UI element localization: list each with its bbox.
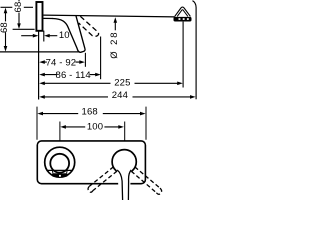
text 86 - 114 — [56, 70, 91, 81]
handle lever raised position (side view, dashed) — [79, 16, 99, 36]
side ticks — [51, 171, 54, 174]
handle tip extension line — [84, 53, 86, 67]
handle stem — [118, 171, 131, 200]
aerator slots — [179, 18, 181, 20]
spout tip cone inner — [177, 10, 188, 17]
dimension 74-92 — [39, 60, 45, 64]
svg-text:244: 244 — [112, 90, 128, 101]
dimension 10 — [21, 35, 33, 37]
dimension texts — [0, 2, 135, 133]
escutcheon plate (front view) — [37, 141, 145, 184]
68-top extension line at plate bottom level — [13, 28, 35, 30]
aerator block — [174, 17, 192, 22]
dimension 244 — [39, 95, 45, 99]
dashed-handle tip extension line — [100, 37, 102, 80]
spout bottom line — [43, 17, 53, 19]
svg-text:68: 68 — [0, 22, 10, 33]
svg-text:74 - 92: 74 - 92 — [46, 57, 77, 68]
front view: extension lines — [36, 107, 38, 140]
dashed lever right position (front view) — [131, 167, 161, 194]
spout outlet inner circle — [50, 154, 69, 173]
dimension 100 — [60, 125, 66, 129]
svg-text:100: 100 — [87, 122, 103, 133]
handle lever (side view, solid) — [53, 16, 86, 52]
spout top line — [43, 15, 174, 17]
svg-text:225: 225 — [114, 77, 130, 88]
dimension diameter 28 arrow — [114, 17, 118, 23]
svg-text:68: 68 — [13, 2, 24, 13]
dimension 225 — [39, 82, 45, 86]
spout tip curve + 244 extension line — [193, 1, 197, 100]
dashed lever left position (front view) — [88, 167, 117, 192]
handle knob (front view) — [112, 150, 136, 174]
dimension 86-114 — [39, 73, 45, 77]
plate front extension line — [43, 31, 45, 42]
dimension 68 left: vertical line — [4, 8, 8, 14]
68-left top extension line — [1, 6, 13, 8]
dimension 68 top: vertical line — [18, 0, 20, 1]
svg-text:86 - 114: 86 - 114 — [56, 70, 91, 81]
text 168 — [78, 106, 103, 117]
text 74 - 92 — [46, 57, 77, 68]
chord line — [47, 169, 73, 171]
text 244 — [108, 90, 133, 101]
text 225 — [111, 77, 135, 88]
spout tip cone outer — [175, 7, 191, 16]
aerator bar front — [52, 173, 68, 177]
225 extension line — [182, 22, 184, 88]
escutcheon plate (side view) — [36, 2, 42, 31]
svg-text:10: 10 — [59, 30, 70, 41]
svg-text:168: 168 — [82, 106, 98, 117]
wall section vertical reference line — [38, 31, 40, 100]
dimension 168 — [37, 112, 43, 116]
text 100 — [85, 122, 104, 133]
svg-text:Ø 28: Ø 28 — [109, 30, 120, 58]
wall horizontal line — [0, 51, 80, 53]
neck eraser — [117, 171, 132, 180]
spout outlet outer circle — [45, 147, 75, 177]
